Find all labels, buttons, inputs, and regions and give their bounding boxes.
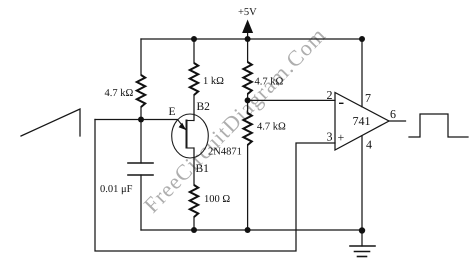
svg-text:100 Ω: 100 Ω xyxy=(204,194,230,205)
svg-text:E: E xyxy=(169,106,176,118)
svg-text:B1: B1 xyxy=(196,163,210,175)
svg-text:+5V: +5V xyxy=(238,7,257,18)
svg-text:4.7 kΩ: 4.7 kΩ xyxy=(105,88,134,99)
svg-text:2N4871: 2N4871 xyxy=(208,147,242,158)
svg-text:1 kΩ: 1 kΩ xyxy=(203,76,224,87)
svg-text:6: 6 xyxy=(390,107,396,121)
svg-text:741: 741 xyxy=(353,114,371,128)
svg-text:4.7 kΩ: 4.7 kΩ xyxy=(255,77,284,88)
svg-text:4.7 kΩ: 4.7 kΩ xyxy=(257,122,286,133)
svg-text:4: 4 xyxy=(366,138,372,152)
svg-text:+: + xyxy=(338,131,345,145)
svg-text:2: 2 xyxy=(327,88,333,102)
svg-text:B2: B2 xyxy=(197,101,211,113)
svg-text:7: 7 xyxy=(365,91,371,105)
svg-text:0.01 μF: 0.01 μF xyxy=(100,184,133,195)
svg-text:3: 3 xyxy=(327,130,333,144)
